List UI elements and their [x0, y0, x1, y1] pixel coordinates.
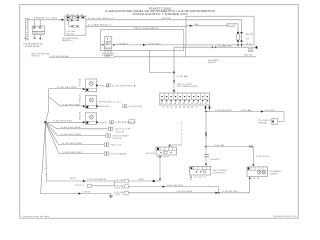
svg-text:0.35 GN 44: 0.35 GN 44	[256, 156, 269, 158]
svg-text:0.35 HG 834: 0.35 HG 834	[61, 127, 81, 129]
arrow into lamp unit O	[252, 164, 254, 166]
wire battery feed to fuse box	[27, 18, 64, 20]
legend connector row 2	[114, 185, 129, 190]
arrow on row R3	[215, 192, 218, 194]
junction of strip drops	[205, 111, 209, 113]
svg-text:D040: D040	[105, 54, 112, 56]
svg-text:8031: 8031	[70, 178, 76, 180]
wire ground row L3	[41, 191, 111, 193]
svg-text:2 4 6: 2 4 6	[250, 178, 259, 180]
wire relay output to cluster	[174, 45, 257, 49]
svg-text:C050 B: C050 B	[115, 131, 124, 133]
svg-text:832 HG 4: 832 HG 4	[100, 106, 111, 108]
dashed wire strip to switch M	[181, 122, 183, 145]
dimmer rheostat N15	[104, 37, 112, 49]
arrow into lamp I	[83, 121, 86, 123]
svg-text:0.5 AB 8045 C: 0.5 AB 8045 C	[88, 24, 113, 27]
relay box name label	[208, 59, 220, 64]
svg-text:0.35 N: 0.35 N	[82, 191, 91, 193]
wire dimmer connector to relay area	[31, 53, 256, 58]
wire switch M output down to row R1	[159, 158, 161, 181]
arrow into switch N	[205, 164, 207, 166]
title text	[105, 8, 216, 16]
wire lamp G feed	[49, 87, 84, 89]
lamp unit I output arrow	[96, 121, 99, 123]
lamp unit I body	[85, 113, 96, 125]
switch N ground pin	[190, 175, 193, 179]
junction to lamp O branch	[205, 146, 207, 148]
lamp bulb 1 in unit O	[258, 171, 261, 174]
svg-text:30: 30	[195, 24, 199, 26]
svg-text:D044 4: D044 4	[211, 159, 220, 161]
svg-text:F31 5A: F31 5A	[67, 32, 75, 35]
svg-text:CAJA MANIOB.: CAJA MANIOB.	[23, 43, 44, 46]
connector at end of row L1	[75, 184, 93, 187]
svg-text:1 3 5 7: 1 3 5 7	[194, 177, 206, 179]
wire row R2	[128, 185, 218, 187]
svg-text:0.35 GV 4672 C: 0.35 GV 4672 C	[88, 18, 115, 20]
fuse box B001	[65, 15, 86, 36]
wire lamp row at y=128.8	[46, 122, 108, 129]
dimmer pin strip	[104, 48, 112, 53]
wire branch to lamp unit O	[206, 145, 253, 148]
svg-text:0.35 GN: 0.35 GN	[114, 192, 124, 194]
switch unit N (lights switch)	[189, 166, 210, 179]
wire F2 inside relay box to relay contact	[186, 24, 238, 32]
svg-text:2 4 6 8: 2 4 6 8	[157, 156, 169, 158]
inline connector on lamp row y=153.6	[104, 152, 127, 156]
svg-text:7808 C: 7808 C	[31, 56, 41, 58]
svg-text:0.35 AB: 0.35 AB	[177, 75, 189, 78]
fuse box internal label	[67, 30, 76, 35]
svg-text:C053 LUZ ASIEN: C053 LUZ ASIEN	[110, 152, 127, 155]
svg-text:0.35 BN 4312: 0.35 BN 4312	[215, 110, 232, 112]
arrow on row R2	[162, 185, 165, 187]
inline connector on switch N feed	[204, 147, 219, 163]
svg-text:0.35 HG 830 AV: 0.35 HG 830 AV	[50, 55, 70, 58]
wire strip pin drop left	[205, 105, 207, 112]
arrow up into lamp unit O return pin	[249, 177, 251, 179]
unit M1 body	[33, 26, 45, 35]
lamp unit O (heater panel lamps)	[247, 167, 268, 176]
dimmer connector shell	[103, 52, 114, 58]
wire cluster feed vertical	[174, 47, 192, 93]
relay output stubs through box edge	[237, 42, 252, 47]
wire lamp I feed	[46, 121, 84, 123]
fuse box name label	[62, 37, 79, 42]
svg-text:ILUMINACION DEL PANEL DE INSTR: ILUMINACION DEL PANEL DE INSTRUMENTOS / …	[105, 10, 216, 13]
bus bar ladder of unit M1	[26, 18, 29, 36]
right lamp module P74	[272, 119, 278, 125]
wire row R3 bottom bus	[128, 190, 237, 193]
svg-text:C050 LUZ CLIM: C050 LUZ CLIM	[114, 129, 131, 131]
legend connector row 1	[114, 180, 129, 185]
svg-text:4462: 4462	[138, 179, 144, 181]
wire lamp unit O return down	[196, 179, 250, 193]
svg-text:LUCES EXT.: LUCES EXT.	[213, 173, 227, 175]
svg-text:Continuacion de hoja: Continuacion de hoja	[22, 215, 50, 218]
inline connector on relay feed	[228, 24, 234, 27]
inline connector on lamp row y=135.6	[106, 134, 130, 138]
arrow on right lamp wire	[261, 110, 264, 112]
wire fan down to row L1	[45, 122, 47, 181]
svg-text:E50 CUADRO INSTR.: E50 CUADRO INSTR.	[177, 85, 199, 88]
svg-text:0.35 HG 835: 0.35 HG 835	[61, 134, 81, 136]
wire lamp feed row L1	[46, 178, 114, 181]
svg-text:7893 C 30: 7893 C 30	[33, 18, 57, 20]
svg-text:CUADRO DE INSTRUMENTOS: CUADRO DE INSTRUMENTOS	[134, 27, 160, 30]
svg-text:86 85: 86 85	[246, 34, 253, 36]
arrow on wire inside relay box	[190, 25, 193, 27]
arrow into dimmer	[102, 44, 104, 46]
inline connector on lamp row y=128.8	[108, 127, 131, 131]
wire fan down to ground row L3	[41, 122, 46, 193]
svg-text:C051 B: C051 B	[112, 138, 121, 140]
svg-text:4672 A: 4672 A	[162, 17, 172, 20]
arrow on battery feed wire	[62, 19, 65, 21]
svg-text:0.35 HG 833: 0.35 HG 833	[53, 121, 72, 123]
svg-text:DIGITAL: DIGITAL	[258, 121, 267, 124]
lamp unit G output arrow	[96, 84, 99, 86]
connector pins of unit M1	[35, 20, 41, 26]
svg-text:1425: 1425	[104, 56, 110, 58]
svg-text:C023 B: C023 B	[114, 187, 123, 189]
wire lamp row at y=135.6	[46, 122, 106, 136]
svg-text:0.35 GN 4311: 0.35 GN 4311	[167, 185, 183, 187]
inline connector after lamp G	[106, 84, 137, 87]
svg-text:E52: E52	[80, 94, 82, 102]
lamp unit G body	[85, 79, 96, 92]
wire to right lamp module	[210, 109, 285, 112]
wire lamp row at y=144.6	[46, 122, 104, 145]
arrow on row L1	[83, 180, 86, 182]
arrow into switch M	[168, 145, 170, 147]
svg-text:0.35 HG 833 C: 0.35 HG 833 C	[115, 122, 136, 124]
instrument panel box C outline	[101, 27, 184, 50]
svg-text:PUNTO 2003: PUNTO 2003	[149, 8, 172, 10]
svg-text:0.35 BN: 0.35 BN	[265, 110, 276, 112]
svg-text:0.35 HG 831: 0.35 HG 831	[57, 87, 77, 89]
wire lamp H feed diagonal	[49, 97, 84, 107]
svg-text:4 1: 4 1	[247, 43, 252, 45]
wire strip junction down to switch N	[206, 112, 207, 147]
svg-text:E53: E53	[80, 112, 82, 120]
svg-text:C051 LUZ RADIO: C051 LUZ RADIO	[112, 134, 130, 137]
relay box B002 outline	[186, 16, 254, 45]
svg-text:87: 87	[246, 38, 249, 40]
wire jog into switch M	[170, 144, 182, 146]
svg-text:F4G010-018-3-05: F4G010-018-3-05	[274, 216, 298, 218]
svg-text:0.35 BG 4312: 0.35 BG 4312	[147, 43, 161, 45]
arrow on row L3	[78, 192, 81, 194]
lamp unit H output arrow	[96, 105, 99, 107]
svg-text:TABLERO: TABLERO	[208, 61, 217, 64]
arrow out of dimmer	[113, 44, 115, 46]
legend connector row 3	[114, 191, 129, 196]
svg-text:HABITACULO: HABITACULO	[62, 39, 74, 42]
wire F1 inside relay box to relay coil	[186, 20, 242, 32]
arrow into lamp G	[83, 88, 86, 90]
lamp unit O label	[270, 170, 283, 176]
svg-text:0.35 GN 430: 0.35 GN 430	[223, 191, 238, 193]
arrow into lamp H	[83, 105, 86, 107]
svg-text:0.35 HG 832: 0.35 HG 832	[62, 104, 80, 106]
wire row R1 to switch drop	[128, 179, 160, 182]
wire fuse F2 output to relay box	[86, 24, 186, 27]
wire lamp row at y=153.6	[46, 122, 104, 154]
fuse F2	[69, 21, 79, 27]
svg-text:C022 3: C022 3	[75, 185, 84, 187]
wire fuse F1 output to relay box	[86, 17, 186, 20]
svg-text:0.5 HG 832: 0.5 HG 832	[128, 106, 142, 108]
switch M output arrow	[159, 156, 161, 158]
relay I30	[236, 32, 253, 42]
pin numbers under strip	[160, 103, 208, 109]
wire stub relay box left edge down	[185, 45, 187, 57]
junction R2 into R3	[218, 192, 219, 193]
wire right corner down to lamp module	[278, 112, 284, 122]
lamp unit H body	[85, 96, 96, 109]
svg-text:2 4 1 3 5 2 4 6 1: 2 4 1 3 5 2 4 6 1	[162, 107, 199, 109]
unit M1 lower pins to terminals	[33, 35, 41, 40]
svg-text:0.35 HG 836: 0.35 HG 836	[62, 143, 82, 145]
arrow on cluster feed wire	[173, 72, 175, 83]
svg-text:C052 LUZ: C052 LUZ	[110, 144, 121, 146]
right lamp module label	[258, 120, 271, 125]
svg-text:0.35 HG 4462 A: 0.35 HG 4462 A	[87, 178, 107, 181]
border frame	[20, 5, 298, 219]
fuse F1	[67, 18, 79, 21]
wire dimmer output	[115, 43, 185, 45]
svg-text:HASTA AGOSTO Y STEUER XXX: HASTA AGOSTO Y STEUER XXX	[133, 13, 189, 16]
lamp bulb 2 in unit O	[262, 171, 265, 174]
svg-text:8 6 4 2: 8 6 4 2	[67, 15, 84, 17]
arrow on dimmer output wire	[143, 44, 146, 46]
arrow into cluster connector	[173, 90, 175, 92]
pin arrows inside strip cells	[161, 96, 208, 101]
arrow end into row R1	[159, 179, 161, 181]
svg-text:0.35 HG 832 C 4 D: 0.35 HG 832 C 4 D	[97, 102, 122, 104]
svg-text:1 2 3: 1 2 3	[105, 51, 112, 53]
wire row L1 corner to connector	[93, 181, 115, 186]
fan junction node	[44, 121, 47, 124]
wire from panel box C bottom to cluster feed	[150, 50, 175, 72]
svg-text:30: 30	[249, 50, 252, 52]
instrument cluster connector strip E50	[160, 93, 210, 105]
relay box ID box	[249, 49, 254, 52]
label of unit M1	[23, 43, 44, 49]
svg-text:1 2 3 4 5 6 7 8 9 0 1: 1 2 3 4 5 6 7 8 9 0 1	[160, 103, 208, 105]
inline connector after lamp H	[123, 105, 143, 108]
svg-text:0.35 HG 831 A: 0.35 HG 831 A	[112, 84, 138, 87]
inline connector on lamp row y=144.6	[104, 143, 121, 147]
svg-text:M010: M010	[34, 33, 43, 35]
svg-text:0.35 BG: 0.35 BG	[117, 43, 129, 45]
svg-text:/ B BATERIA: / B BATERIA	[23, 45, 40, 48]
svg-text:0.35 GN: 0.35 GN	[214, 145, 225, 147]
svg-text:0.35 HG: 0.35 HG	[114, 180, 125, 182]
svg-text:H06 INT: H06 INT	[146, 153, 155, 155]
svg-text:E51: E51	[80, 78, 82, 86]
inline connector after lamp I	[110, 121, 137, 124]
svg-text:0.35 GN: 0.35 GN	[114, 185, 124, 187]
wire strip pin drop right	[209, 105, 211, 112]
connector bulb symbol end of lamp I row	[129, 120, 136, 124]
ground terminal under ladder	[25, 38, 29, 40]
wire corner down into lamp unit O	[253, 147, 269, 165]
switch N label	[213, 170, 229, 175]
ground symbol end of row L3	[109, 194, 112, 198]
wire row R2 corner down to R3	[218, 187, 220, 193]
wire fan up to lamp column feed	[46, 89, 49, 123]
svg-text:0.35 HG 837: 0.35 HG 837	[63, 152, 83, 154]
switch unit M body	[156, 147, 177, 158]
end terminal of relay output wire	[256, 46, 258, 48]
